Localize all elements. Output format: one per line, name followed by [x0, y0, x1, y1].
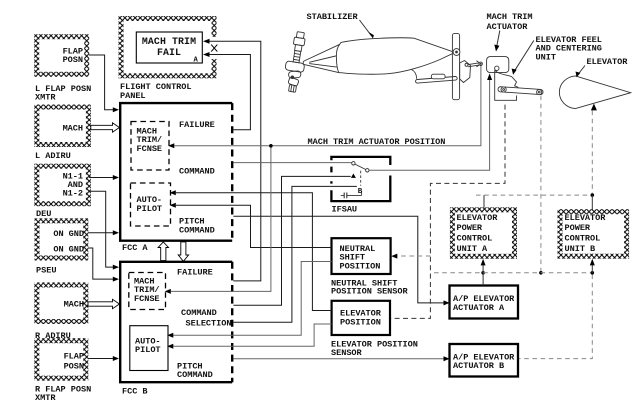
svg-text:FCNSE: FCNSE — [134, 294, 160, 304]
svg-text:ACTUATOR: ACTUATOR — [487, 22, 529, 32]
svg-text:COMMAND: COMMAND — [179, 166, 215, 176]
svg-text:POSITION: POSITION — [340, 262, 381, 272]
svg-text:A: A — [194, 56, 199, 64]
svg-text:ELEVATOR: ELEVATOR — [587, 57, 629, 67]
svg-text:COMMAND: COMMAND — [181, 308, 217, 318]
svg-text:XMTR: XMTR — [35, 92, 56, 102]
svg-text:SELECTION: SELECTION — [186, 319, 232, 329]
svg-text:POWER: POWER — [565, 223, 591, 233]
svg-text:IFSAU: IFSAU — [332, 205, 358, 215]
svg-text:ELEVATOR: ELEVATOR — [457, 213, 499, 223]
svg-text:POSN: POSN — [64, 361, 84, 371]
svg-text:FAIL: FAIL — [157, 47, 181, 58]
svg-text:MACH: MACH — [64, 300, 84, 310]
svg-text:FAILURE: FAILURE — [179, 120, 215, 130]
svg-text:CONTROL: CONTROL — [565, 234, 601, 244]
svg-text:FCC A: FCC A — [122, 243, 148, 253]
svg-text:L ADIRU: L ADIRU — [35, 151, 71, 161]
svg-text:POSN: POSN — [63, 55, 83, 65]
svg-text:POSITION SENSOR: POSITION SENSOR — [331, 286, 408, 296]
svg-text:UNIT A: UNIT A — [457, 244, 489, 254]
svg-text:COMMAND: COMMAND — [179, 226, 215, 236]
svg-text:UNIT B: UNIT B — [565, 244, 596, 254]
svg-text:MACH TRIM ACTUATOR POSITION: MACH TRIM ACTUATOR POSITION — [308, 137, 446, 147]
svg-text:PSEU: PSEU — [36, 266, 56, 276]
svg-text:SENSOR: SENSOR — [331, 348, 363, 358]
svg-text:XMTR: XMTR — [35, 393, 56, 403]
svg-text:FLAP: FLAP — [64, 352, 84, 362]
svg-text:MACH TRIM: MACH TRIM — [142, 36, 196, 47]
svg-text:POSITION: POSITION — [340, 317, 381, 327]
svg-text:ACTUATOR B: ACTUATOR B — [453, 361, 504, 371]
svg-text:PANEL: PANEL — [120, 91, 146, 101]
svg-text:CONTROL: CONTROL — [457, 234, 493, 244]
svg-text:PILOT: PILOT — [135, 345, 161, 355]
svg-text:ON GND: ON GND — [53, 245, 84, 255]
svg-text:ACTUATOR A: ACTUATOR A — [453, 303, 505, 313]
svg-text:DEU: DEU — [36, 209, 51, 219]
svg-text:R ADIRU: R ADIRU — [35, 331, 71, 341]
svg-text:MACH: MACH — [63, 123, 83, 133]
svg-text:POWER: POWER — [457, 223, 483, 233]
svg-text:STABILIZER: STABILIZER — [307, 12, 359, 22]
svg-text:B: B — [358, 188, 363, 196]
svg-text:FCC B: FCC B — [122, 387, 148, 397]
svg-text:ELEVATOR: ELEVATOR — [565, 213, 607, 223]
svg-text:PILOT: PILOT — [137, 204, 163, 214]
svg-text:COMMAND: COMMAND — [177, 370, 213, 380]
svg-text:UNIT: UNIT — [536, 52, 556, 62]
svg-text:FCNSE: FCNSE — [137, 144, 163, 154]
svg-text:ON GND: ON GND — [53, 229, 84, 239]
svg-text:N1-2: N1-2 — [63, 189, 83, 199]
svg-text:FAILURE: FAILURE — [177, 267, 213, 277]
svg-text:MACH TRIM: MACH TRIM — [487, 12, 533, 22]
